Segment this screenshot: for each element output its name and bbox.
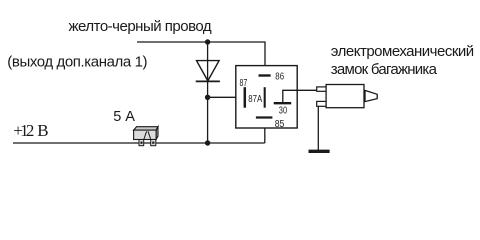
actuator nose <box>365 90 377 101</box>
wire: +12V bottom rail from +12 B label through fuse to pin-85 branch <box>13 142 265 144</box>
relay pin 87A contact bar <box>264 87 266 108</box>
diode (anode up, cathode down) <box>196 61 220 82</box>
actuator upper terminal <box>317 87 326 91</box>
svg-text:электромеханический: электромеханический <box>331 43 474 60</box>
ground <box>309 150 330 153</box>
relay pin 87 contact bar <box>244 87 247 108</box>
relay pin 30 contact bar <box>274 102 292 104</box>
svg-text:замок багажника: замок багажника <box>331 61 438 78</box>
svg-text:30: 30 <box>279 106 288 117</box>
svg-text:желто-черный провод: желто-черный провод <box>69 18 212 35</box>
relay K1 body <box>236 66 297 128</box>
svg-text:(выход доп.канала 1): (выход доп.канала 1) <box>7 54 147 71</box>
svg-text:87A: 87A <box>248 94 262 105</box>
wire: top horizontal (yellow-black wire) with bend down to relay pin 86 <box>137 42 265 75</box>
relay pin 85 contact bar <box>256 116 273 118</box>
wire: vertical branch through diode down to +12V rail <box>207 42 209 143</box>
svg-text:86: 86 <box>275 72 284 83</box>
relay pin 86 contact bar <box>259 74 271 76</box>
svg-text:+12 В: +12 В <box>13 121 48 140</box>
fuse 5A (automotive blade fuse) <box>134 127 158 146</box>
svg-text:5 А: 5 А <box>113 109 135 125</box>
actuator lower terminal <box>317 101 326 106</box>
node: junction of diode column with +12V rail <box>205 140 210 145</box>
node: junction of diode anode with top wire <box>205 39 210 44</box>
wire: pin 30 lead up and out to actuator upper terminal <box>283 90 317 103</box>
svg-text:87: 87 <box>240 78 248 89</box>
wire: horizontal to relay pin 87 <box>208 96 244 98</box>
wire: actuator lower terminal to ground <box>317 106 319 150</box>
wire: relay pin 85 lead down to +12V rail <box>264 118 266 143</box>
svg-text:85: 85 <box>275 119 285 130</box>
actuator body <box>326 85 364 108</box>
actuator: electromechanical trunk lock <box>317 85 378 108</box>
node: junction of pin-87 branch on diode column <box>205 95 210 100</box>
